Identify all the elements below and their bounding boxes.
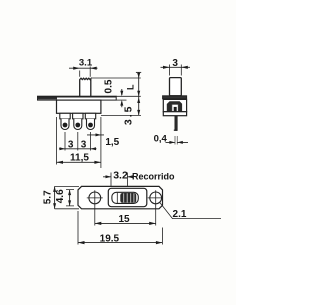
- side view extension lines knob: [170, 65, 182, 76]
- top view plate outline: [78, 186, 163, 208]
- dimension 4,6 line: [69, 190, 71, 206]
- terminal pin 3: [87, 119, 95, 130]
- dimension L line: [138, 72, 140, 96]
- svg-text:3: 3: [81, 140, 87, 151]
- dimension 4,6 arrows: [68, 190, 71, 206]
- dimension 3,5 rotated text: [123, 104, 135, 125]
- mounting flange top edge: [38, 96, 117, 98]
- dimension 11,5 line: [57, 161, 101, 163]
- svg-text:11,5: 11,5: [70, 152, 89, 163]
- svg-text:19.5: 19.5: [100, 233, 120, 244]
- dimension 3,1 arrows: [73, 67, 97, 70]
- svg-text:4.6: 4.6: [55, 189, 66, 203]
- terminal pin 3 hole dot: [88, 123, 93, 128]
- side view terminal tip: [174, 129, 178, 131]
- dimension 15 arrows: [95, 222, 156, 225]
- dimension 1,5 text: [105, 137, 119, 148]
- extension line flange bottom: [116, 99, 126, 101]
- terminal pin 1 hole dot: [63, 123, 68, 128]
- side view flange edge: [163, 96, 187, 99]
- svg-text:2.1: 2.1: [173, 209, 187, 220]
- label Recorrido: [132, 171, 175, 181]
- svg-text:0.5: 0.5: [104, 79, 115, 93]
- dimension 3,2 lines: [103, 176, 133, 178]
- dimension 15 line: [95, 222, 156, 224]
- dimension 5,7 arrows: [53, 186, 56, 208]
- dimension 0,4 arrows: [169, 141, 182, 144]
- side view body: [163, 99, 186, 111]
- dimension 4,6 rotated text: [55, 189, 66, 203]
- dimension 19,5 text: [100, 233, 120, 244]
- dimension 5,7 extension lines: [55, 186, 79, 208]
- dimension 3 3 line: [59, 148, 97, 150]
- dimension 15 text: [118, 214, 130, 225]
- top view left mounting hole: [89, 192, 101, 204]
- dimension 3,2 extension lines: [111, 173, 127, 187]
- dimension 3,2 arrows: [106, 175, 133, 178]
- side view actuator knob: [170, 78, 182, 96]
- extension line body bottom right: [101, 114, 141, 116]
- dimension 19,5 arrows: [78, 241, 162, 244]
- extension lines body edges: [57, 117, 101, 168]
- side view inner window: [172, 104, 178, 111]
- dimension 5,7 line: [54, 186, 56, 208]
- top view slot: [112, 192, 138, 203]
- dimension 3,2 text: [113, 170, 128, 182]
- svg-text:3.2: 3.2: [113, 170, 128, 182]
- dimension 3,1 line: [69, 67, 98, 69]
- dimension 2,1 leader: [160, 203, 221, 219]
- dimension 1,5 line: [87, 134, 104, 136]
- dimension 2,1 text: [173, 209, 187, 220]
- dimension 1,5 arrow: [96, 133, 102, 136]
- dimension 11,5 arrows: [57, 161, 101, 164]
- extension line flange top: [116, 95, 141, 97]
- actuator knob front view: [80, 78, 91, 96]
- dimension 19,5 line: [78, 242, 162, 244]
- dimension 5,7 rotated text: [42, 190, 53, 204]
- extension lines knob edges: [80, 67, 91, 77]
- svg-text:3.1: 3.1: [79, 58, 93, 69]
- side view terminal: [175, 116, 178, 131]
- extension line knob top level: [91, 77, 141, 79]
- terminal pin 2: [74, 119, 82, 130]
- svg-text:1,5: 1,5: [105, 137, 119, 148]
- mounting flange bar front view: [38, 96, 117, 100]
- dimension 3,1 text: [79, 58, 93, 69]
- terminal pin 1 root: [60, 113, 70, 119]
- svg-text:0,4: 0,4: [154, 133, 168, 144]
- dimension 3,5 arrows: [137, 98, 140, 116]
- svg-text:3.5: 3.5: [123, 104, 135, 125]
- side view contact pin inside window: [174, 107, 177, 111]
- dimension 3 3 arrows: [60, 147, 97, 150]
- top view body outline: [108, 188, 147, 206]
- dimension L text: [125, 84, 135, 90]
- top view slider knob: [120, 193, 136, 203]
- terminal pin 2 root: [73, 113, 83, 119]
- dimension 0,5 arrows flange thickness: [121, 89, 123, 107]
- dimension L arrows: [137, 73, 140, 96]
- dimension 0,5 rotated text: [104, 79, 115, 93]
- side view inner cavity: [167, 101, 182, 111]
- top view slider knurl stripes: [124, 193, 134, 202]
- svg-text:3: 3: [68, 140, 74, 151]
- terminal pin 1: [61, 119, 69, 130]
- dimension 4,6 extension ticks: [66, 190, 74, 206]
- side view dimension 3 arrows: [163, 66, 188, 69]
- extension whiskers terminal: [175, 136, 177, 145]
- top view slot inner line: [116, 193, 118, 204]
- svg-text:15: 15: [118, 214, 130, 225]
- dimension 19,5 extension lines: [78, 211, 162, 245]
- mounting flange left ear solid: [38, 96, 58, 99]
- dimension 0,4 lines: [166, 141, 189, 143]
- extension lines pin centers: [65, 132, 91, 151]
- dimension 0,4 text: [154, 133, 168, 144]
- dimension 3,5 line: [138, 96, 140, 115]
- terminal pin 2 hole dot: [75, 123, 80, 128]
- side view dimension 3 line: [161, 66, 191, 68]
- terminal pin 3 root: [85, 113, 95, 119]
- dimension 3 3 texts: [68, 140, 87, 151]
- switch body front view: [57, 100, 101, 113]
- svg-text:5.7: 5.7: [42, 190, 53, 204]
- svg-text:L: L: [125, 84, 135, 90]
- dimension 11,5 text: [70, 152, 89, 163]
- dimension 15 extension lines: [95, 206, 156, 226]
- side view base rim: [163, 112, 186, 116]
- side view dimension 3 text: [172, 58, 178, 69]
- svg-text:Recorrido: Recorrido: [132, 171, 175, 181]
- top view right mounting hole: [150, 192, 162, 204]
